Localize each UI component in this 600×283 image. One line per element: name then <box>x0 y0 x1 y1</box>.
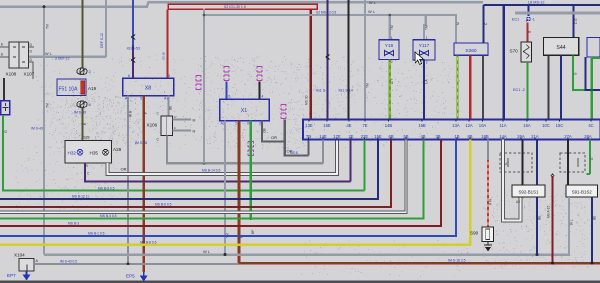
wire X8 gray WB down <box>127 96 129 264</box>
svg-text:IM S-43 0.5: IM S-43 0.5 <box>60 259 77 263</box>
svg-text:IM S-53: IM S-53 <box>74 111 86 115</box>
svg-text:2: 2 <box>391 60 393 64</box>
junction S92 WL <box>536 253 539 256</box>
wire S260 red down <box>469 55 471 119</box>
svg-text:A28: A28 <box>113 147 122 152</box>
wire olive top <box>81 0 83 68</box>
component X1 box <box>220 99 270 121</box>
wire H32 purple <box>85 163 351 182</box>
component S90 <box>482 227 494 242</box>
svg-text:H35: H35 <box>90 151 99 156</box>
wire WL horizontal upper-left <box>29 56 107 58</box>
fuse F51 box <box>57 79 86 96</box>
wire purple 16E <box>326 0 328 120</box>
wire WL bottom <box>44 197 569 255</box>
svg-text:A2: A2 <box>516 200 520 204</box>
wire H35 hollow OR <box>108 140 338 175</box>
svg-text:M: M <box>456 22 460 25</box>
wire olive to H box <box>81 108 83 140</box>
svg-text:S2 MS-12 0.5: S2 MS-12 0.5 <box>316 11 336 15</box>
wire blue top segment <box>132 0 134 45</box>
junction WL Y18 <box>389 14 392 17</box>
wire 26A black <box>521 140 523 186</box>
svg-text:X1: X1 <box>241 108 248 114</box>
component right blue box <box>587 37 600 57</box>
ground S90 <box>487 242 489 246</box>
lamp H32 <box>77 149 83 155</box>
wire darkred riser <box>551 176 553 263</box>
junction x204 y163 <box>203 162 206 165</box>
svg-text:TM: TM <box>45 24 49 29</box>
wire X1 OR path <box>262 121 285 142</box>
glyph riser arrow <box>551 174 554 176</box>
svg-text:S90: S90 <box>470 231 479 236</box>
lamp H35 <box>103 149 109 155</box>
component X106 <box>161 116 173 136</box>
svg-text:MS B-1 0.5: MS B-1 0.5 <box>88 232 105 236</box>
svg-text:10C: 10C <box>542 123 550 128</box>
wire gray 7E <box>364 0 366 120</box>
component Y117 <box>413 40 435 60</box>
svg-text:1: 1 <box>426 36 428 40</box>
ground EP7 <box>26 271 28 275</box>
wire S44 black down <box>547 55 549 119</box>
wire S92 navy down <box>536 197 538 255</box>
wire S91 gray down <box>568 197 570 255</box>
wire L8 drop EC1 <box>528 5 530 16</box>
wire Y18 green down <box>389 60 391 120</box>
svg-text:H32: H32 <box>68 151 77 156</box>
svg-text:R W: R W <box>488 199 492 205</box>
wire red EC1 to S70 <box>526 23 528 43</box>
svg-text:3 DEF-12: 3 DEF-12 <box>55 57 70 61</box>
pin stub X106 right1 <box>173 119 192 121</box>
dashed box right <box>560 153 585 172</box>
svg-text:IM S-43: IM S-43 <box>31 127 43 131</box>
svg-text:TM: TM <box>45 103 49 108</box>
wire S70 green down <box>526 62 528 120</box>
pin stub E1 left <box>0 46 9 48</box>
wire S44 navy down <box>560 55 562 119</box>
svg-text:MS B-3 0.5: MS B-3 0.5 <box>98 186 115 190</box>
wire purple lower segment <box>132 45 134 78</box>
red bus box <box>168 4 317 9</box>
svg-text:11A: 11A <box>499 123 506 128</box>
component X8 box <box>123 78 174 96</box>
svg-text:Y18: Y18 <box>385 43 394 48</box>
svg-text:4: 4 <box>261 95 263 99</box>
svg-text:15C: 15C <box>556 123 564 128</box>
wire S44 green elbow <box>573 55 592 90</box>
component S260 <box>454 43 488 55</box>
svg-text:MS B-12 1L: MS B-12 1L <box>72 195 90 199</box>
svg-text:MS B-4 0.5: MS B-4 0.5 <box>100 214 117 218</box>
svg-text:L8 MS-12: L8 MS-12 <box>528 1 544 5</box>
svg-text:DEF S-12: DEF S-12 <box>100 33 104 48</box>
wire L8 drop S44 <box>572 5 574 37</box>
connector X104 <box>19 258 34 271</box>
svg-text:G Y: G Y <box>390 78 394 84</box>
wire X106 bottom gray <box>167 136 323 164</box>
svg-text:10A: 10A <box>479 123 487 128</box>
svg-text:MS A-15: MS A-15 <box>546 206 550 218</box>
svg-text:IG1S-53: IG1S-53 <box>127 47 140 51</box>
junction WL x204 <box>203 14 206 17</box>
wire 22E green up <box>363 140 365 191</box>
component H box <box>65 140 111 163</box>
chevron on wire 2 <box>131 58 135 63</box>
wire 14E gray up <box>322 140 324 164</box>
svg-text:2: 2 <box>426 61 428 65</box>
svg-text:16A: 16A <box>523 123 531 128</box>
svg-text:W L: W L <box>45 52 52 56</box>
svg-text:X8: X8 <box>145 86 152 92</box>
svg-text:13A: 13A <box>452 123 460 128</box>
strip pin ticks <box>308 120 310 122</box>
svg-text:4C: 4C <box>588 123 593 128</box>
svg-text:BE: BE <box>169 106 173 110</box>
svg-text:L A: L A <box>424 79 428 84</box>
svg-text:W B: W B <box>128 110 132 117</box>
wire Y117 navy down <box>423 60 425 120</box>
svg-text:S29: S29 <box>84 135 90 139</box>
svg-text:5: 5 <box>228 95 230 99</box>
wire 27A black <box>567 140 569 186</box>
wire yellow 8B bus <box>0 140 470 245</box>
wire red left drop to X8 <box>167 9 169 78</box>
svg-text:MS B: MS B <box>290 151 298 155</box>
svg-text:IM S-18 2.5: IM S-18 2.5 <box>448 259 466 263</box>
wire darkred 3B bus <box>0 140 441 226</box>
svg-text:S70: S70 <box>510 49 519 54</box>
connector strip X2 <box>303 120 600 140</box>
wire top gray bus <box>0 2 483 7</box>
svg-text:BE: BE <box>537 216 541 220</box>
svg-text:OB: OB <box>262 127 266 133</box>
bottom border band <box>0 280 600 283</box>
pin stub X106 right2 <box>173 130 192 132</box>
connector pair on green <box>248 142 253 148</box>
ground EP5 <box>143 272 145 276</box>
connector X107 <box>19 42 29 68</box>
svg-text:G: G <box>4 130 8 133</box>
svg-text:4E: 4E <box>346 123 351 128</box>
svg-text:S91-B1S2: S91-B1S2 <box>572 190 593 195</box>
bowtie Y117 <box>420 51 429 56</box>
svg-text:S260: S260 <box>465 48 477 54</box>
wire red right drop to 13E <box>310 9 312 119</box>
wire X1 gray down <box>224 121 226 255</box>
junction brown riser <box>551 262 554 265</box>
svg-text:IG1 S-7: IG1 S-7 <box>316 88 328 92</box>
wire TM vertical <box>43 7 45 255</box>
pin stub D2 right <box>29 62 34 79</box>
svg-text:1: 1 <box>235 122 237 126</box>
svg-text:M: M <box>193 129 196 133</box>
wire x284 down <box>285 120 309 156</box>
wire S91 navy down <box>591 197 593 263</box>
svg-text:EP7: EP7 <box>7 273 16 278</box>
svg-text:S92-B1S1: S92-B1S1 <box>518 190 539 195</box>
pin stub E2 left <box>0 56 9 58</box>
svg-text:W L: W L <box>569 219 573 225</box>
wire X8 gray A7 to X106 <box>168 96 170 116</box>
svg-text:S2 IG1-30 1.5: S2 IG1-30 1.5 <box>224 5 246 9</box>
wire navy 15E bus <box>0 140 378 200</box>
svg-text:9: 9 <box>86 164 88 168</box>
svg-text:X104: X104 <box>14 252 25 257</box>
wire green right box down <box>591 58 593 120</box>
wire 7B up <box>307 140 309 156</box>
svg-text:TM: TM <box>365 83 369 88</box>
svg-text:5: 5 <box>168 74 170 78</box>
connector pair x284 <box>281 105 286 111</box>
wire 14A hollow loop <box>503 140 521 221</box>
wire green left edge <box>3 115 365 191</box>
wire gray drop Y18 <box>389 15 391 40</box>
wire WL y15 <box>204 15 456 43</box>
wire X8 brown to EP5 <box>142 96 145 272</box>
svg-text:IG1 S-14: IG1 S-14 <box>339 88 353 92</box>
wire L8 <box>484 4 600 6</box>
svg-text:MS B-14 0.5: MS B-14 0.5 <box>202 168 220 172</box>
wire gray x204 <box>203 9 205 164</box>
junction green x591 <box>591 89 594 92</box>
svg-text:MS B-3: MS B-3 <box>68 221 79 225</box>
wire gray y13 right <box>515 12 600 15</box>
wire 28A green stub <box>589 140 591 175</box>
fuse element red <box>81 81 85 94</box>
svg-text:1: 1 <box>391 36 393 40</box>
wire X104 gray <box>34 263 239 265</box>
svg-text:EC1 -2: EC1 -2 <box>513 88 525 92</box>
wire L8 drop 11A <box>503 5 505 120</box>
svg-text:A19: A19 <box>88 86 97 91</box>
wire 18B pink <box>487 160 489 227</box>
wire gray drop Y117 <box>424 15 426 40</box>
wire green 4B bus <box>0 140 424 219</box>
svg-text:BE: BE <box>592 216 596 220</box>
component left resistor box <box>1 101 10 115</box>
wire darkred 6B bus <box>0 140 391 207</box>
wire gray DEF vertical <box>105 0 107 57</box>
wire navy below right box <box>586 57 600 90</box>
cursor hand <box>415 52 423 64</box>
svg-text:6: 6 <box>128 74 130 78</box>
svg-text:MS 30: MS 30 <box>304 95 308 105</box>
svg-text:W L: W L <box>368 9 376 14</box>
wire X1 green down <box>250 121 252 219</box>
chevron purple <box>326 55 330 60</box>
svg-text:S44: S44 <box>556 45 565 51</box>
svg-text:F51 10A: F51 10A <box>59 87 79 93</box>
svg-text:EP5: EP5 <box>126 273 135 278</box>
svg-text:W L: W L <box>369 1 376 5</box>
junction X8 gray X104wire <box>127 262 130 265</box>
wire X1 brown down <box>239 121 600 264</box>
wire black X1 pin4 <box>259 82 261 100</box>
svg-text:12A: 12A <box>465 123 473 128</box>
pins inside X108 <box>13 46 16 48</box>
svg-text:OR: OR <box>121 167 127 172</box>
svg-text:X107: X107 <box>24 72 35 77</box>
wire black into left box <box>3 78 5 101</box>
svg-text:MS B-8 0.5: MS B-8 0.5 <box>140 240 157 244</box>
wire L8 drop S260 <box>483 5 485 43</box>
svg-text:X106: X106 <box>147 123 158 128</box>
svg-text:EC1: EC1 <box>512 17 519 21</box>
svg-text:Y117: Y117 <box>419 43 430 48</box>
connector pair on x204 <box>196 76 201 82</box>
component S92-B1S1 <box>512 185 545 197</box>
svg-text:IM S-18: IM S-18 <box>135 141 147 145</box>
svg-text:X108: X108 <box>6 72 17 77</box>
connector pair X1 pin4 <box>257 67 262 73</box>
wire 18B gray top <box>487 140 489 161</box>
svg-text:W L: W L <box>203 249 211 254</box>
svg-text:5: 5 <box>140 97 142 101</box>
svg-text:TM: TM <box>390 25 394 30</box>
wire S260 dark down <box>482 55 484 119</box>
svg-text:14B: 14B <box>385 123 393 128</box>
wire blue X1 pin5 <box>226 82 228 100</box>
svg-text:13E: 13E <box>305 123 313 128</box>
svg-text:16E: 16E <box>323 123 331 128</box>
wire blue 1B bus <box>0 140 456 237</box>
connector X108 <box>9 42 19 68</box>
wire hollow 5B bus <box>0 140 406 213</box>
junction green y218 <box>249 217 252 220</box>
wire S260 gy down <box>457 55 459 119</box>
wire black 4E <box>347 0 349 120</box>
glyph EC1 junction <box>527 17 531 21</box>
dashed box left <box>500 153 532 172</box>
svg-text:OR: OR <box>271 135 277 140</box>
component S44 <box>543 37 578 55</box>
junction brown S91 <box>591 262 594 265</box>
connector pair X1 pin5 <box>224 67 229 73</box>
svg-text:TM: TM <box>425 25 429 30</box>
svg-text:7E: 7E <box>362 123 367 128</box>
svg-text:M: M <box>193 118 196 122</box>
svg-text:MS B-6 0.5: MS B-6 0.5 <box>155 202 172 206</box>
bowtie Y18 <box>385 51 394 56</box>
junction X1 gray WL <box>224 253 227 256</box>
connector glyph 2 <box>77 68 87 75</box>
svg-text:-1: -1 <box>532 17 535 21</box>
svg-text:C G: C G <box>574 18 578 24</box>
chevron on wire 1 <box>131 35 135 40</box>
watermark speckles <box>15 55 593 279</box>
pin stub D1 right <box>29 46 35 48</box>
wire 21A navy <box>536 140 538 186</box>
connector glyph 8 <box>77 101 87 108</box>
svg-text:15B: 15B <box>418 123 426 128</box>
component Y18 <box>379 40 399 60</box>
wire 2E purple up <box>349 140 351 182</box>
svg-text:S2 30: S2 30 <box>161 52 165 60</box>
component S91-B1S2 <box>566 185 598 197</box>
component S70 <box>521 42 532 62</box>
